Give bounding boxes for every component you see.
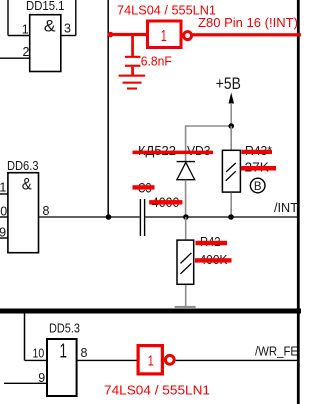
DD15.1 pin 1 wire xyxy=(8,0,30,36)
label R42 xyxy=(200,235,221,249)
svg-text:/INT: /INT xyxy=(274,201,298,215)
svg-text:10: 10 xyxy=(0,205,7,219)
strike-out bar over C3 xyxy=(133,185,155,189)
power +5B arrow xyxy=(229,93,235,127)
svg-text:Z80 Pin 16 (!INT): Z80 Pin 16 (!INT) xyxy=(198,16,298,30)
IC gate DD5.3 xyxy=(47,321,80,396)
sheet frame right border xyxy=(297,0,300,404)
DD6.3 pin 10 wire xyxy=(0,216,8,218)
DD6.3 pin 8 label xyxy=(43,204,50,218)
wire R43 to /INT node xyxy=(230,193,232,217)
ground (red) xyxy=(119,75,146,90)
ground bar below R42 xyxy=(175,306,196,308)
wire +5B horizontal xyxy=(186,125,232,127)
svg-text:/WR_FE: /WR_FE xyxy=(255,345,298,359)
svg-text:1: 1 xyxy=(161,28,167,45)
label /WR_FE xyxy=(255,345,298,359)
label R43* xyxy=(245,144,272,158)
svg-text:3: 3 xyxy=(64,22,71,36)
inverter gate (red, top) xyxy=(148,21,192,48)
DD15.1 pin 2 wire xyxy=(0,57,30,59)
svg-text:9: 9 xyxy=(0,225,6,239)
wire +5B to R43 xyxy=(230,126,232,150)
label 400K xyxy=(200,253,229,267)
svg-text:9: 9 xyxy=(38,371,45,385)
DD6.3 pin 10 label xyxy=(0,205,7,219)
DD6.3 pin 9 label xyxy=(0,225,6,239)
svg-text:74LS04 / 555LN1: 74LS04 / 555LN1 xyxy=(104,384,210,398)
strike-out bar over 27K xyxy=(241,166,276,171)
DD6.3 pin 11 wire xyxy=(0,193,8,195)
svg-text:2: 2 xyxy=(23,45,30,59)
capacitor C3 plates xyxy=(140,199,146,236)
strike-out bar over 4000 xyxy=(149,200,182,204)
label 74LS04 / 555LN1 (top) xyxy=(117,4,216,18)
label Z80 Pin 16 (!INT) xyxy=(198,16,298,30)
wire DD5.3 output to inverter xyxy=(77,359,137,361)
wire diode anode to /INT node xyxy=(185,180,187,217)
DD15.1 pin 3 wire xyxy=(61,0,76,36)
strike-out bar over 400K xyxy=(195,258,232,262)
wire /INT node to R42 xyxy=(185,217,187,239)
strike-out bar over КД522 VD3 xyxy=(133,151,214,155)
power +5B label xyxy=(216,74,241,93)
vertical wire from top to /INT node xyxy=(107,0,109,217)
red junction dot xyxy=(108,32,114,38)
svg-text:11: 11 xyxy=(0,180,6,194)
IC gate DD15.1 xyxy=(26,0,65,72)
wire to diode cathode xyxy=(185,125,187,161)
svg-text:6.8nF: 6.8nF xyxy=(141,54,172,68)
svg-text:DD5.3: DD5.3 xyxy=(49,321,80,335)
wire R42 to ground xyxy=(185,285,187,306)
inverter gate (red, bottom) xyxy=(138,346,174,374)
label КД522 VD3 xyxy=(138,144,211,158)
strike-out bar over R42 xyxy=(196,241,228,245)
sheet border band xyxy=(0,309,301,314)
DD6.3 pin 11 label xyxy=(0,180,6,194)
svg-text:8: 8 xyxy=(81,346,88,360)
label 4000 xyxy=(152,195,180,210)
DD5.3 pin 9 label xyxy=(38,371,45,385)
red wire into inverter xyxy=(108,33,147,36)
junction node at +5B xyxy=(228,123,234,129)
resistor R42 xyxy=(177,240,194,284)
circled B mark xyxy=(250,178,265,193)
svg-text:+5B: +5B xyxy=(216,74,241,93)
svg-text:1: 1 xyxy=(22,23,29,37)
red wire to Z80 xyxy=(192,33,301,36)
strike-out bar over R43* xyxy=(242,150,273,154)
DD6.3 pin 9 wire xyxy=(0,237,8,239)
DD15.1 pin 3 label xyxy=(64,22,71,36)
svg-text:DD15.1: DD15.1 xyxy=(26,0,65,13)
svg-text:1: 1 xyxy=(148,352,154,369)
resistor R43 xyxy=(222,150,240,192)
label 74LS04 / 555LN1 (bottom) xyxy=(104,384,210,398)
DD5.3 pin 10 label xyxy=(33,347,45,361)
diode VD3 xyxy=(177,162,195,180)
DD5.3 pin 8 label xyxy=(81,346,88,360)
wire from band to DD5.3 pin 10 xyxy=(25,314,48,361)
svg-text:10: 10 xyxy=(33,347,45,361)
svg-text:B: B xyxy=(254,181,262,193)
label /INT xyxy=(274,201,298,215)
capacitor 6.8nF (red) xyxy=(125,34,140,75)
label 6.8nF xyxy=(141,54,172,68)
label 27K xyxy=(245,161,270,175)
DD15.1 pin 2 label xyxy=(23,45,30,59)
IC gate DD6.3 xyxy=(7,159,39,253)
DD5.3 pin 9 wire xyxy=(4,382,47,384)
label C3 xyxy=(138,180,152,196)
svg-text:8: 8 xyxy=(43,204,50,218)
svg-text:1: 1 xyxy=(60,341,68,363)
junction dot at diode node xyxy=(183,214,189,220)
DD15.1 pin 1 label xyxy=(22,23,29,37)
svg-text:&: & xyxy=(44,17,56,36)
junction dot at vertical wire xyxy=(106,214,112,220)
junction dot at R43 node xyxy=(228,214,234,220)
svg-text:DD6.3: DD6.3 xyxy=(7,159,39,173)
main /INT wire xyxy=(39,216,297,218)
svg-text:&: & xyxy=(22,174,33,193)
wire inverter to /WR_FE xyxy=(176,359,298,361)
